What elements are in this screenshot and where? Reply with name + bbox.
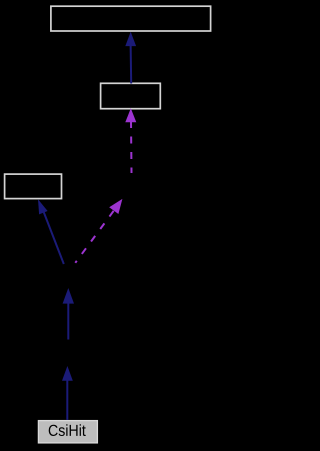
edge: solid inheritance arrow, middle box to top box bbox=[125, 32, 136, 84]
edge: solid vertical arrow, hidden node to hidden node (upper) bbox=[63, 288, 74, 340]
node: middle class box (empty) bbox=[101, 83, 161, 108]
node: CsiHit box bbox=[38, 421, 97, 443]
edge: solid vertical arrow, CsiHit up to hidden node (lower) bbox=[62, 366, 73, 420]
edge: dashed diagonal usage arrow, hidden node up-right to hidden node bbox=[75, 199, 122, 263]
node: left class box (empty) bbox=[5, 174, 62, 199]
edge: solid diagonal arrow, hidden node up to left box bbox=[38, 199, 64, 264]
edge: dashed usage arrow, hidden node up to middle box bbox=[125, 108, 136, 173]
node: base class box (top, empty) bbox=[51, 6, 211, 31]
